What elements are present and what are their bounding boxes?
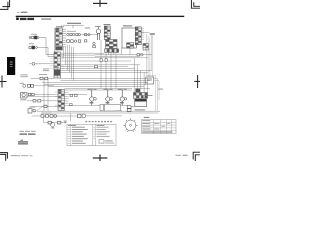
net label right bbox=[158, 89, 163, 90]
wire through R14 R15 bbox=[31, 78, 54, 80]
wire tuner to CN4 bbox=[34, 94, 58, 96]
capacitor C10 bbox=[32, 62, 35, 65]
connector CN4 strip lower bbox=[58, 89, 64, 110]
page corner icon bottom-left bbox=[0, 153, 7, 161]
capacitor C6 on bus bbox=[141, 53, 144, 56]
wire bus y68.4 bbox=[61, 67, 135, 69]
page corner icon bottom-right bbox=[193, 152, 200, 161]
capacitor C21 bbox=[110, 98, 113, 101]
wire tuner lower bbox=[27, 96, 58, 98]
page corner icon top-right bbox=[191, 0, 200, 8]
label CN1 bbox=[56, 26, 64, 27]
label tuner bbox=[20, 99, 26, 100]
pin row under K1 bbox=[105, 49, 119, 53]
label chain A bbox=[31, 34, 37, 35]
wire bus y86.5 bbox=[48, 86, 144, 88]
wire bus y55.1 bbox=[61, 54, 95, 56]
label T1 bbox=[135, 109, 146, 110]
net label right of bus bbox=[150, 33, 155, 35]
connector CN2 strip bbox=[104, 26, 110, 40]
wire fan CN4 right bbox=[64, 90, 132, 105]
IC internal connector block bbox=[127, 43, 134, 48]
capacitor C5 bbox=[93, 42, 95, 44]
label left text rows bbox=[20, 74, 28, 77]
leader line diagonal bbox=[34, 105, 46, 113]
resistor R28 bbox=[70, 104, 73, 106]
resistor R10 on bus bbox=[137, 54, 140, 56]
transformer T1 bbox=[135, 99, 147, 106]
wire right bus vertical 3 bbox=[150, 38, 159, 100]
crop mark right center bbox=[194, 75, 200, 88]
resistor R2 bbox=[76, 34, 78, 36]
labels left of strip bbox=[43, 69, 49, 72]
label U1 bbox=[123, 25, 132, 26]
connector pinout circle bbox=[124, 118, 138, 132]
wire bus y80.5 bbox=[60, 80, 150, 82]
net label right of Q1 bbox=[85, 28, 90, 29]
relay block K1 bbox=[106, 40, 118, 49]
wire right bus vertical 4 bbox=[151, 34, 153, 71]
label Q3 bbox=[104, 89, 113, 90]
component box right bbox=[146, 77, 154, 84]
wire right bus vertical 2 bbox=[148, 36, 157, 111]
input filter chain B bbox=[29, 46, 37, 49]
resistor R27 bbox=[75, 94, 78, 96]
wire bus y61 bbox=[61, 60, 131, 62]
connector CN5 dark row bbox=[134, 93, 148, 99]
diode D1 bbox=[67, 33, 69, 35]
wire right bus vertical 5 bbox=[152, 34, 154, 79]
wire drops from K1 bbox=[106, 48, 122, 55]
pin labels right of U1 bbox=[142, 28, 144, 39]
capacitor C30 bbox=[48, 121, 51, 124]
wire y116 bbox=[32, 115, 78, 117]
connector CN1 strip bbox=[56, 28, 63, 50]
wire drops below CN1 bbox=[64, 45, 74, 81]
legend table bbox=[67, 124, 116, 146]
diode D4 bbox=[88, 34, 90, 36]
resistor R16 bbox=[27, 84, 30, 87]
pin ticks CN3 right bbox=[61, 54, 64, 68]
value labels under transistors bbox=[90, 102, 124, 103]
component block below pins bbox=[143, 44, 149, 51]
capacitor C2 bbox=[74, 40, 76, 42]
resistor R6 bbox=[78, 40, 81, 42]
diode D2 bbox=[73, 33, 75, 35]
diode D3 bbox=[78, 33, 80, 35]
transistor Q1 bbox=[96, 27, 101, 41]
component row label bbox=[67, 30, 76, 33]
wire y122.5 bbox=[43, 122, 67, 124]
parts table right header bbox=[144, 117, 150, 118]
IC U1 pin columns bbox=[135, 27, 141, 45]
crop mark left center bbox=[0, 76, 7, 88]
parts table right bbox=[142, 120, 177, 134]
resistor R24 bbox=[38, 100, 41, 102]
wire strip top to bracket bbox=[61, 25, 63, 28]
label right of RP bbox=[131, 106, 134, 107]
wire lower row to CN4 bbox=[27, 100, 58, 102]
wire bus y82.5 bbox=[42, 82, 148, 84]
wire bus y64.8 bbox=[61, 64, 140, 66]
wire left input y63.8 bbox=[29, 63, 54, 65]
wire bus mid y56.2 bbox=[95, 55, 140, 57]
wire bus y70.5 bbox=[61, 70, 153, 72]
resistor R12 on drop bbox=[100, 59, 102, 62]
page corner icon top-left bbox=[0, 0, 10, 9]
capacitor C11 bbox=[23, 84, 26, 87]
wire row1 to Q1 bbox=[81, 34, 99, 36]
section tab bbox=[7, 57, 15, 75]
resistor pair RP2 bbox=[127, 109, 131, 112]
resistor R33 bbox=[50, 115, 53, 118]
wire bus y57.8 bbox=[61, 57, 148, 59]
power block PS1 bbox=[28, 107, 35, 113]
wire drop x43.3 bbox=[42, 116, 44, 123]
resistor R17 bbox=[31, 84, 34, 87]
wire comp row2 to strip bbox=[34, 85, 54, 87]
wire chain A to bus bbox=[39, 38, 54, 55]
ground symbol bbox=[64, 121, 67, 123]
resistor R1 bbox=[70, 34, 72, 36]
resistor R8 bbox=[93, 46, 96, 48]
caution note line 1 bbox=[20, 131, 36, 132]
wire bus y113 bbox=[41, 112, 158, 114]
resistor R15 bbox=[45, 77, 48, 80]
wire bus y78.5 bbox=[60, 78, 152, 80]
resistor R3 bbox=[85, 34, 87, 36]
wire CN5 pins up bbox=[134, 58, 147, 93]
capacitor C34 bbox=[54, 114, 57, 117]
header rule bbox=[16, 16, 185, 17]
wire right bus vertical 1 bbox=[146, 34, 156, 111]
resistor R25 bbox=[44, 105, 47, 107]
wire bus mid y54.7 bbox=[95, 54, 152, 56]
crop mark bottom center bbox=[93, 155, 108, 162]
header page label text bbox=[17, 12, 27, 13]
label chain B bbox=[29, 43, 34, 44]
symbol row above table bbox=[86, 121, 113, 122]
pin ticks CN3 left bbox=[50, 54, 54, 68]
wire bus y111.2 bbox=[37, 110, 160, 112]
relay box RY1 bbox=[78, 114, 82, 118]
wire bus left of CN1 bbox=[54, 28, 56, 52]
resistor pair RP1 bbox=[127, 106, 131, 109]
resistor R13 on drop bbox=[105, 59, 107, 62]
connector CN3 strip mid bbox=[54, 52, 60, 78]
label Q2 bbox=[88, 89, 97, 90]
resistor R5 bbox=[71, 40, 74, 43]
label left comp2 bbox=[20, 83, 25, 84]
transistor Q2 bbox=[90, 90, 94, 106]
label above R14 bbox=[39, 74, 47, 75]
resistor R11 on bus bbox=[95, 66, 98, 68]
resistor R31 bbox=[41, 115, 44, 118]
label box right bbox=[148, 80, 153, 81]
wire IC block down bbox=[129, 48, 131, 55]
block box wide bbox=[105, 104, 121, 111]
small circle symbol legend bbox=[50, 123, 54, 129]
resistor R23 bbox=[33, 100, 36, 102]
pin ticks CN4 left bbox=[55, 92, 58, 105]
wire bus y72.5 bbox=[61, 72, 149, 74]
capacitor C22 bbox=[124, 98, 127, 101]
IC U1 bbox=[122, 28, 136, 48]
wire bus y66.6 bbox=[61, 66, 128, 68]
capacitor C31 bbox=[58, 121, 61, 124]
tuner box left bbox=[21, 93, 28, 99]
wire long verticals center bbox=[101, 40, 116, 89]
stamp block bbox=[18, 140, 28, 145]
label CN2 bbox=[104, 24, 111, 25]
transistor Q4 bbox=[120, 90, 124, 106]
wire y88.3 right of CN5 bbox=[135, 87, 150, 89]
footer text right bbox=[176, 155, 188, 156]
wire pin row to net label bbox=[141, 32, 149, 34]
caution note line 2 bbox=[20, 133, 36, 135]
wire bus y88.5 bbox=[65, 88, 133, 90]
resistor R14 bbox=[40, 77, 43, 80]
wire y106.5 bbox=[30, 106, 58, 108]
wire bus y105.5 bbox=[69, 105, 129, 107]
diode block above CN5 bbox=[136, 89, 141, 92]
label CN3 bbox=[53, 66, 59, 69]
input filter chain A bbox=[29, 36, 39, 39]
block box small bbox=[100, 104, 104, 110]
wire bus y53.2 bbox=[61, 52, 104, 54]
resistor R26 bbox=[70, 94, 73, 96]
wire y115.9 bbox=[86, 115, 122, 117]
label bracket power line bbox=[63, 23, 84, 29]
label Q1 bbox=[95, 26, 101, 27]
section title bbox=[16, 18, 51, 21]
label comps row bbox=[42, 113, 51, 114]
wire bus y84.5 bbox=[44, 84, 146, 86]
label Q4 bbox=[118, 89, 127, 90]
wire fan CN1 right bbox=[62, 29, 66, 47]
wire drop x44 bbox=[43, 79, 45, 112]
net label right lower bbox=[148, 95, 153, 96]
resistor R7 bbox=[85, 40, 87, 42]
wire drop x48 bbox=[47, 79, 49, 112]
transistor Q3 bbox=[106, 90, 110, 106]
footer text left bbox=[11, 155, 33, 156]
wire chain B to bus bbox=[37, 48, 54, 57]
wire drop x70.5 bbox=[70, 113, 72, 122]
resistor R4 bbox=[67, 40, 70, 43]
capacitor C33 bbox=[82, 114, 86, 118]
resistor R22 bbox=[32, 93, 35, 95]
label above pinout bbox=[116, 110, 122, 111]
resistor R32 bbox=[46, 115, 49, 118]
capacitor C20 bbox=[94, 98, 97, 101]
resistor R21 bbox=[28, 93, 31, 95]
crop mark top center bbox=[93, 0, 107, 7]
